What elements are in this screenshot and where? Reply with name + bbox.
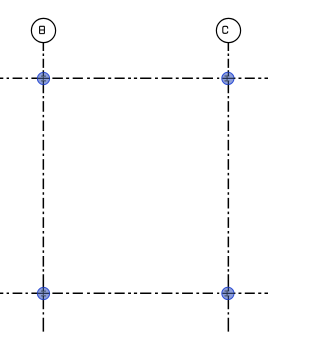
grid bubble B [31,18,55,42]
column B1: I-beam flanges [41,76,46,81]
horizontal grid line top (dash-dot wire) [0,77,268,79]
wire cross through node C2 [222,287,234,299]
grid line C (vertical dash-dot wire) [227,43,229,332]
label B [40,26,45,33]
column B2: I-beam flanges [41,291,46,296]
node B2: blue analytical node [37,287,49,299]
node C2: blue analytical node [222,287,234,299]
grid line B (vertical dash-dot wire) [42,43,44,332]
label C [223,26,228,33]
column C2: I-beam flanges [225,291,230,296]
node B1: blue analytical node [37,72,49,84]
column C1: I-beam flanges [225,76,230,81]
node C1: blue analytical node [222,72,234,84]
wire cross through node C1 [222,72,234,84]
horizontal grid line bottom (dash-dot wire) [0,292,268,294]
wire cross through node B1 [37,72,49,84]
wire cross through node B2 [37,287,49,299]
grid bubble C [216,18,240,42]
